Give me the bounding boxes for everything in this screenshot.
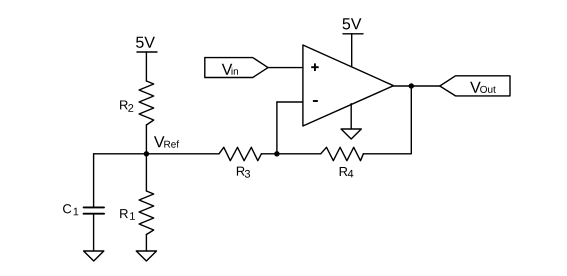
node feedback junction dot xyxy=(274,151,279,156)
node output junction dot xyxy=(409,83,414,88)
label R2 sub "2" xyxy=(128,104,133,112)
label 5V (op-amp) "5V" xyxy=(343,18,362,29)
wire R3 to R4 xyxy=(261,153,320,155)
label R2 main "R" xyxy=(120,100,128,109)
label R1 main "R" xyxy=(120,209,128,218)
label R4 sub "4" xyxy=(348,170,354,178)
wire R2 to node VRef and to R1 xyxy=(145,125,147,191)
ground (R1) xyxy=(136,251,156,261)
label R1 sub "1" xyxy=(130,212,135,220)
wire op-amp to ground xyxy=(350,104,352,129)
op-amp U1 xyxy=(303,45,394,126)
wire R1 to ground xyxy=(145,235,147,252)
wire op-amp output xyxy=(394,85,440,87)
flag Vin xyxy=(205,58,268,78)
wire C1 to ground xyxy=(93,215,95,251)
op-amp plus symbol xyxy=(311,63,319,71)
label VRef sub "Ref" xyxy=(164,140,179,147)
wire Vin to op-amp xyxy=(268,67,303,69)
label C1 main "C" xyxy=(63,204,71,213)
wire node VRef horizontal xyxy=(94,153,219,155)
label VOut sub "Out" xyxy=(480,86,496,93)
capacitor C1 xyxy=(84,207,104,213)
flag VOut xyxy=(440,76,510,96)
resistor R2 xyxy=(139,81,154,125)
label 5V (divider) "5V" xyxy=(136,37,155,48)
resistor R4 xyxy=(321,147,364,160)
label R3 sub "3" xyxy=(245,170,250,178)
label R4 main "R" xyxy=(340,167,348,176)
label R3 main "R" xyxy=(237,167,245,176)
label Vin main "V" xyxy=(222,64,233,75)
node VRef junction dot xyxy=(144,151,149,156)
label C1 sub "1" xyxy=(74,208,79,216)
wire feedback vertical xyxy=(276,102,278,154)
power 5V (op-amp) xyxy=(343,34,363,67)
ground (C1) xyxy=(84,251,104,261)
label Vin sub "in" xyxy=(232,67,238,74)
ground (op-amp) xyxy=(341,129,361,139)
wire 5V to R2 xyxy=(145,52,147,81)
label VRef main "V" xyxy=(154,136,165,147)
wire feedback to inverting input xyxy=(277,101,303,103)
op-amp minus symbol xyxy=(313,100,318,102)
power 5V (divider) xyxy=(137,51,157,53)
wire C1 branch down xyxy=(93,154,95,207)
resistor R1 xyxy=(139,191,154,235)
label VOut main "V" xyxy=(470,82,481,93)
wire R4 to output node xyxy=(363,86,411,154)
resistor R3 xyxy=(219,147,261,160)
